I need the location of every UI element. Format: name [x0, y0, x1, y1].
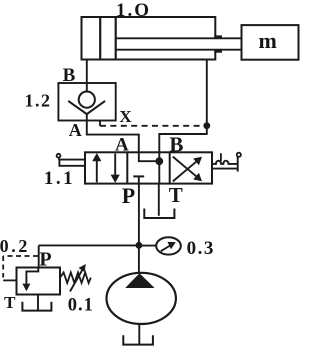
rod gland tick upper: [214, 35, 222, 38]
4/3 directional valve 1.1 body: [85, 152, 212, 183]
right square cross arrow down: [173, 157, 198, 178]
pump suction line: [138, 324, 140, 345]
relief valve pilot dashed line: [3, 255, 38, 257]
check valve seat: [68, 101, 105, 114]
svg-text:1.1: 1.1: [44, 168, 75, 189]
middle square junction dot: [155, 157, 163, 165]
wire branch to relief valve: [39, 244, 139, 246]
relief valve adjust arrow: [70, 268, 83, 291]
wire cylinder rod port down (to valve B line): [206, 60, 208, 135]
right actuator lever stem: [237, 157, 239, 172]
right actuator spring and rod top: [212, 161, 238, 164]
tank under relief valve: [22, 302, 51, 311]
svg-text:T: T: [169, 183, 183, 207]
gauge needle: [161, 245, 172, 252]
cylinder piston line right: [115, 17, 117, 60]
left actuator knob: [57, 154, 61, 158]
pump: [107, 273, 176, 324]
right square cross arrow up: [173, 160, 198, 181]
middle square blocked P stem: [138, 176, 140, 183]
wire T port down: [158, 184, 160, 216]
middle square B-T through line: [158, 152, 160, 183]
svg-text:1.O: 1.O: [116, 0, 151, 21]
wire P port down to pump: [138, 184, 140, 274]
svg-text:m: m: [259, 28, 277, 53]
wire to gauge: [139, 245, 156, 247]
wire cylinder cap port down to check valve B: [86, 60, 88, 84]
pilot line X (dashed): [100, 125, 207, 127]
wire check valve A to valve port A: [87, 121, 139, 153]
left square up arrow: [96, 160, 98, 183]
wire relief valve P drop: [38, 245, 40, 267]
relief valve drain: [37, 295, 39, 311]
svg-text:1.2: 1.2: [25, 91, 52, 111]
tank under T port: [144, 209, 174, 219]
junction dot P line: [136, 242, 143, 249]
right actuator rod bottom: [212, 168, 238, 170]
relief valve internal arrow path: [26, 268, 38, 285]
right actuator knob: [237, 153, 241, 157]
valve divider right: [169, 152, 171, 183]
left actuator lever rod: [59, 160, 85, 166]
relief valve spring: [60, 272, 91, 283]
check valve 1.2 box: [58, 83, 115, 121]
rod gland tick lower: [214, 50, 222, 53]
wire valve port B up and right to rod line: [159, 134, 207, 152]
left actuator lever stem: [58, 157, 61, 160]
middle square blocked P crossbar: [133, 175, 144, 177]
piston rod bottom line: [116, 49, 242, 51]
svg-text:0.1: 0.1: [68, 295, 94, 315]
pressure gauge 0.3: [156, 237, 181, 254]
middle square A internal elbow: [139, 152, 160, 161]
pilot port elbow from check valve: [99, 121, 101, 126]
right actuator detent tick: [220, 153, 222, 161]
check valve ball: [79, 92, 95, 108]
svg-text:0.3: 0.3: [187, 238, 215, 259]
mass m box: [242, 25, 299, 60]
cylinder piston line left: [99, 17, 101, 60]
check valve bottom stub: [86, 114, 88, 120]
svg-text:T: T: [4, 293, 16, 312]
relief valve 0.1 box: [17, 268, 61, 295]
cylinder 1.0 body: [82, 17, 216, 60]
svg-text:0.2: 0.2: [0, 236, 30, 256]
valve divider left: [126, 152, 128, 183]
svg-text:X: X: [119, 107, 132, 126]
piston rod top line: [116, 37, 242, 39]
pump triangle: [125, 273, 154, 288]
tank under pump: [123, 335, 153, 344]
check valve top stub: [86, 83, 88, 92]
left square down arrow: [114, 154, 116, 175]
svg-text:A: A: [69, 120, 82, 140]
svg-text:P: P: [122, 183, 135, 208]
junction dot pilot/rod line: [203, 122, 210, 129]
relief valve pilot stub: [3, 279, 16, 281]
